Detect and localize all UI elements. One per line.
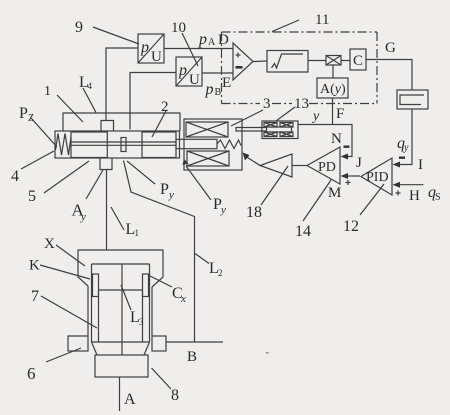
wire amplifier to torque motor [243, 153, 261, 166]
wire pA sensing line [106, 48, 138, 121]
valve top notch [101, 121, 114, 132]
svg-text:9: 9 [75, 19, 83, 36]
p/U converter U10 [176, 57, 202, 88]
bottom chamfers [92, 342, 150, 355]
svg-text:y: y [168, 189, 174, 201]
torque motor lower coil [187, 151, 229, 166]
svg-text:H: H [409, 188, 420, 204]
armature rod [176, 139, 217, 148]
wire PID to PD [341, 173, 361, 179]
piston center line L3 [121, 264, 123, 355]
svg-text:18: 18 [246, 204, 262, 221]
spool rod [71, 142, 176, 145]
svg-text:y: y [220, 204, 226, 216]
minus at PID top input [399, 157, 405, 159]
wire multiplier to C [341, 60, 350, 62]
svg-text:3: 3 [139, 317, 144, 327]
svg-text:3: 3 [263, 96, 271, 112]
pipe L2 [124, 161, 195, 343]
torque motor upper coil [186, 122, 228, 137]
svg-text:7: 7 [31, 288, 39, 305]
label Ay [72, 170, 104, 223]
wire comparator to sqrt block [253, 60, 267, 63]
svg-text:U: U [189, 72, 200, 88]
svg-text:5: 5 [28, 188, 36, 205]
svg-text:y: y [311, 109, 320, 124]
svg-text:K: K [29, 258, 40, 274]
svg-text:PD: PD [318, 160, 336, 175]
label Py port 1 [127, 161, 174, 201]
wire C to flow sensor [366, 60, 412, 91]
svg-text:1: 1 [44, 84, 51, 99]
sensor rod to LVDT [236, 128, 266, 132]
svg-text:10: 10 [171, 20, 186, 36]
servo valve cover [63, 113, 180, 131]
svg-text:B: B [215, 87, 222, 98]
svg-text:A(y): A(y) [320, 82, 346, 97]
spool left land [71, 132, 107, 158]
valve spring [56, 134, 72, 156]
svg-text:N: N [331, 131, 342, 147]
svg-text:P: P [160, 181, 169, 198]
right bushing seal Cx [143, 274, 149, 297]
wire sqrt to multiplier [308, 60, 326, 62]
label pB [205, 81, 222, 98]
valve bottom stub port [100, 158, 112, 170]
svg-text:p: p [178, 62, 187, 79]
piston [99, 290, 143, 342]
wire LVDT y feedback to PD [298, 125, 352, 160]
right bottom flange [152, 336, 166, 351]
plus at PID bottom input [396, 191, 401, 196]
wire qs input to PID [393, 182, 424, 188]
svg-text:PID: PID [366, 170, 389, 185]
svg-text:2: 2 [218, 268, 223, 278]
svg-text:1: 1 [135, 228, 140, 238]
multiplier block [326, 56, 341, 66]
label L2 [195, 254, 223, 279]
PID controller [361, 158, 392, 195]
svg-text:D: D [218, 32, 229, 48]
svg-text:E: E [222, 75, 231, 91]
svg-text:11: 11 [315, 12, 329, 28]
feedback spring [217, 140, 241, 149]
function block A(y) [317, 78, 348, 98]
square-root block [267, 51, 308, 73]
label L4 [79, 74, 96, 113]
port A line [119, 377, 121, 411]
svg-text:14: 14 [295, 223, 311, 240]
amplifier 18 [260, 154, 292, 177]
svg-text:G: G [385, 40, 396, 56]
spool right land [142, 132, 176, 158]
valve body [55, 131, 180, 158]
p/U converter U9 [138, 34, 164, 65]
cylinder bore bottom [92, 341, 150, 343]
svg-text:X: X [44, 236, 55, 252]
label qS [428, 184, 441, 203]
svg-text:M: M [328, 185, 341, 201]
torque motor 3 enclosure [184, 119, 242, 170]
svg-text:J: J [356, 155, 362, 171]
cylinder sleeve [92, 264, 150, 342]
PD controller [307, 147, 340, 184]
wire flow sensor to PID [393, 109, 413, 168]
label L3 [121, 285, 144, 327]
svg-text:p: p [205, 81, 214, 98]
svg-text:F: F [336, 106, 344, 122]
dash-dot electronics box 11 [222, 32, 378, 104]
svg-text:p: p [140, 39, 149, 56]
wire pB sensing line [130, 73, 176, 130]
port B line [166, 341, 223, 343]
label L1 [111, 207, 139, 238]
scan speck [266, 352, 270, 354]
LVDT position sensor 13 [262, 121, 298, 139]
minus at PD top input [344, 146, 350, 148]
comparator op-amp [233, 43, 253, 80]
label Py port 2 [183, 159, 227, 216]
svg-text:6: 6 [27, 364, 36, 383]
wire multiplier to A(y) [332, 65, 334, 78]
svg-text:C: C [353, 53, 363, 69]
plus at PD bottom input [346, 180, 351, 185]
label pA [198, 31, 216, 48]
svg-text:y: y [80, 211, 86, 223]
svg-text:A: A [124, 391, 136, 408]
label qy [397, 135, 409, 154]
bottom cap 8 [95, 355, 148, 377]
svg-text:p: p [198, 31, 207, 48]
svg-text:8: 8 [171, 387, 179, 404]
left bushing seal [93, 274, 99, 297]
svg-text:12: 12 [343, 218, 359, 235]
svg-text:U: U [151, 49, 162, 65]
flow sensor [397, 90, 428, 109]
pipe L1 [106, 170, 108, 251]
svg-text:S: S [435, 192, 441, 203]
wire A(y) to node F [332, 98, 334, 125]
svg-text:A: A [208, 37, 216, 48]
wire U10 to comparator [202, 72, 233, 74]
cylinder outer walls [88, 286, 152, 336]
svg-text:4: 4 [88, 81, 93, 91]
cylinder top flange [78, 250, 163, 287]
svg-text:P: P [19, 105, 28, 122]
label Pz [19, 105, 57, 147]
svg-text:I: I [418, 157, 423, 173]
label Cx [150, 276, 186, 305]
gain block C [350, 49, 366, 70]
spool center land [121, 138, 126, 152]
svg-text:B: B [187, 349, 197, 365]
svg-text:4: 4 [11, 168, 19, 185]
svg-text:x: x [180, 293, 186, 305]
wire U9 to comparator [164, 48, 233, 50]
svg-text:y: y [403, 143, 409, 154]
left bottom flange [68, 336, 88, 351]
svg-text:13: 13 [294, 96, 309, 112]
wire PD to amplifier [292, 165, 307, 167]
